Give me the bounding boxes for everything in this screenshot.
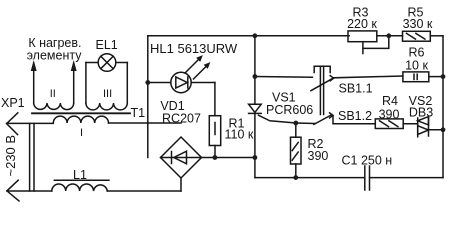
svg-text:T1: T1 xyxy=(131,106,146,120)
svg-text:R4: R4 xyxy=(382,94,398,108)
svg-text:элементу: элементу xyxy=(27,49,83,63)
svg-text:DB3: DB3 xyxy=(409,106,433,120)
svg-text:SB1.2: SB1.2 xyxy=(338,109,372,123)
svg-text:RC207: RC207 xyxy=(162,112,201,126)
svg-text:R6: R6 xyxy=(409,46,425,60)
svg-text:HL1 5613URW: HL1 5613URW xyxy=(150,41,238,56)
svg-text:220 к: 220 к xyxy=(347,17,377,31)
svg-text:PCR606: PCR606 xyxy=(266,103,313,117)
svg-text:EL1: EL1 xyxy=(96,38,118,52)
svg-text:110 к: 110 к xyxy=(225,128,254,142)
svg-text:~230 В: ~230 В xyxy=(3,135,18,177)
svg-text:390: 390 xyxy=(379,107,400,121)
svg-text:II: II xyxy=(50,88,56,100)
svg-text:SB1.1: SB1.1 xyxy=(339,81,373,95)
svg-text:330 к: 330 к xyxy=(403,17,433,31)
svg-text:I: I xyxy=(80,127,83,139)
svg-text:10 к: 10 к xyxy=(405,59,428,73)
svg-text:L1: L1 xyxy=(73,168,87,182)
svg-text:III: III xyxy=(103,88,112,100)
svg-text:390: 390 xyxy=(308,149,329,163)
svg-text:C1 250 н: C1 250 н xyxy=(342,154,393,168)
svg-text:XP1: XP1 xyxy=(1,96,25,110)
